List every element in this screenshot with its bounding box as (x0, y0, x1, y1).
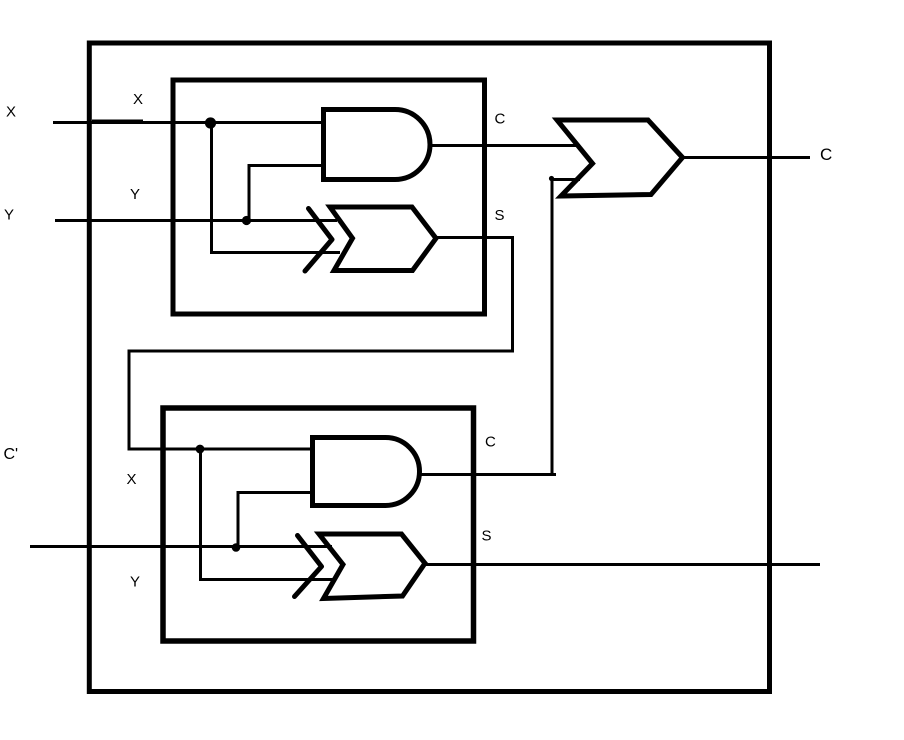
svg-text:C: C (485, 434, 496, 451)
svg-text:S: S (482, 528, 492, 545)
svg-text:S: S (495, 207, 505, 224)
svg-text:X: X (133, 91, 143, 108)
svg-text:C': C' (4, 446, 19, 463)
svg-text:X: X (6, 104, 16, 121)
svg-text:C: C (820, 145, 832, 164)
svg-text:X: X (127, 471, 137, 488)
svg-text:Y: Y (4, 207, 14, 224)
svg-text:Y: Y (130, 186, 140, 203)
svg-text:Y: Y (130, 574, 140, 591)
svg-text:C: C (495, 111, 506, 128)
